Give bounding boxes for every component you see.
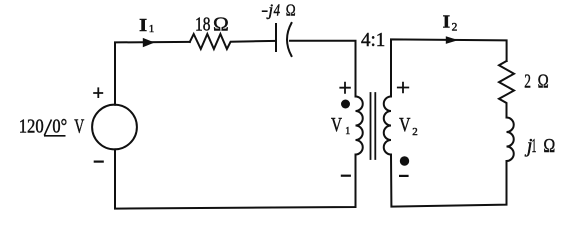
svg-text:2: 2 <box>452 21 458 33</box>
svg-text:V: V <box>74 115 84 137</box>
svg-text:2: 2 <box>412 126 418 138</box>
svg-text:Ω: Ω <box>286 1 296 20</box>
svg-text:V: V <box>399 114 411 136</box>
svg-text:V: V <box>331 114 342 136</box>
svg-text:1: 1 <box>345 126 350 137</box>
svg-text:Ω: Ω <box>213 13 229 35</box>
svg-text:j: j <box>266 1 273 20</box>
svg-text:I: I <box>443 12 451 32</box>
svg-text:Ω: Ω <box>538 71 549 93</box>
svg-text:0°: 0° <box>52 115 67 137</box>
svg-text:1: 1 <box>532 135 537 157</box>
svg-text:4:1: 4:1 <box>361 29 385 51</box>
svg-text:1: 1 <box>149 23 155 35</box>
svg-text:2: 2 <box>524 71 531 93</box>
svg-text:18: 18 <box>195 13 211 35</box>
svg-text:I: I <box>139 15 147 35</box>
svg-text:4: 4 <box>274 1 281 20</box>
svg-text:120: 120 <box>19 115 44 137</box>
svg-text:Ω: Ω <box>543 135 555 157</box>
